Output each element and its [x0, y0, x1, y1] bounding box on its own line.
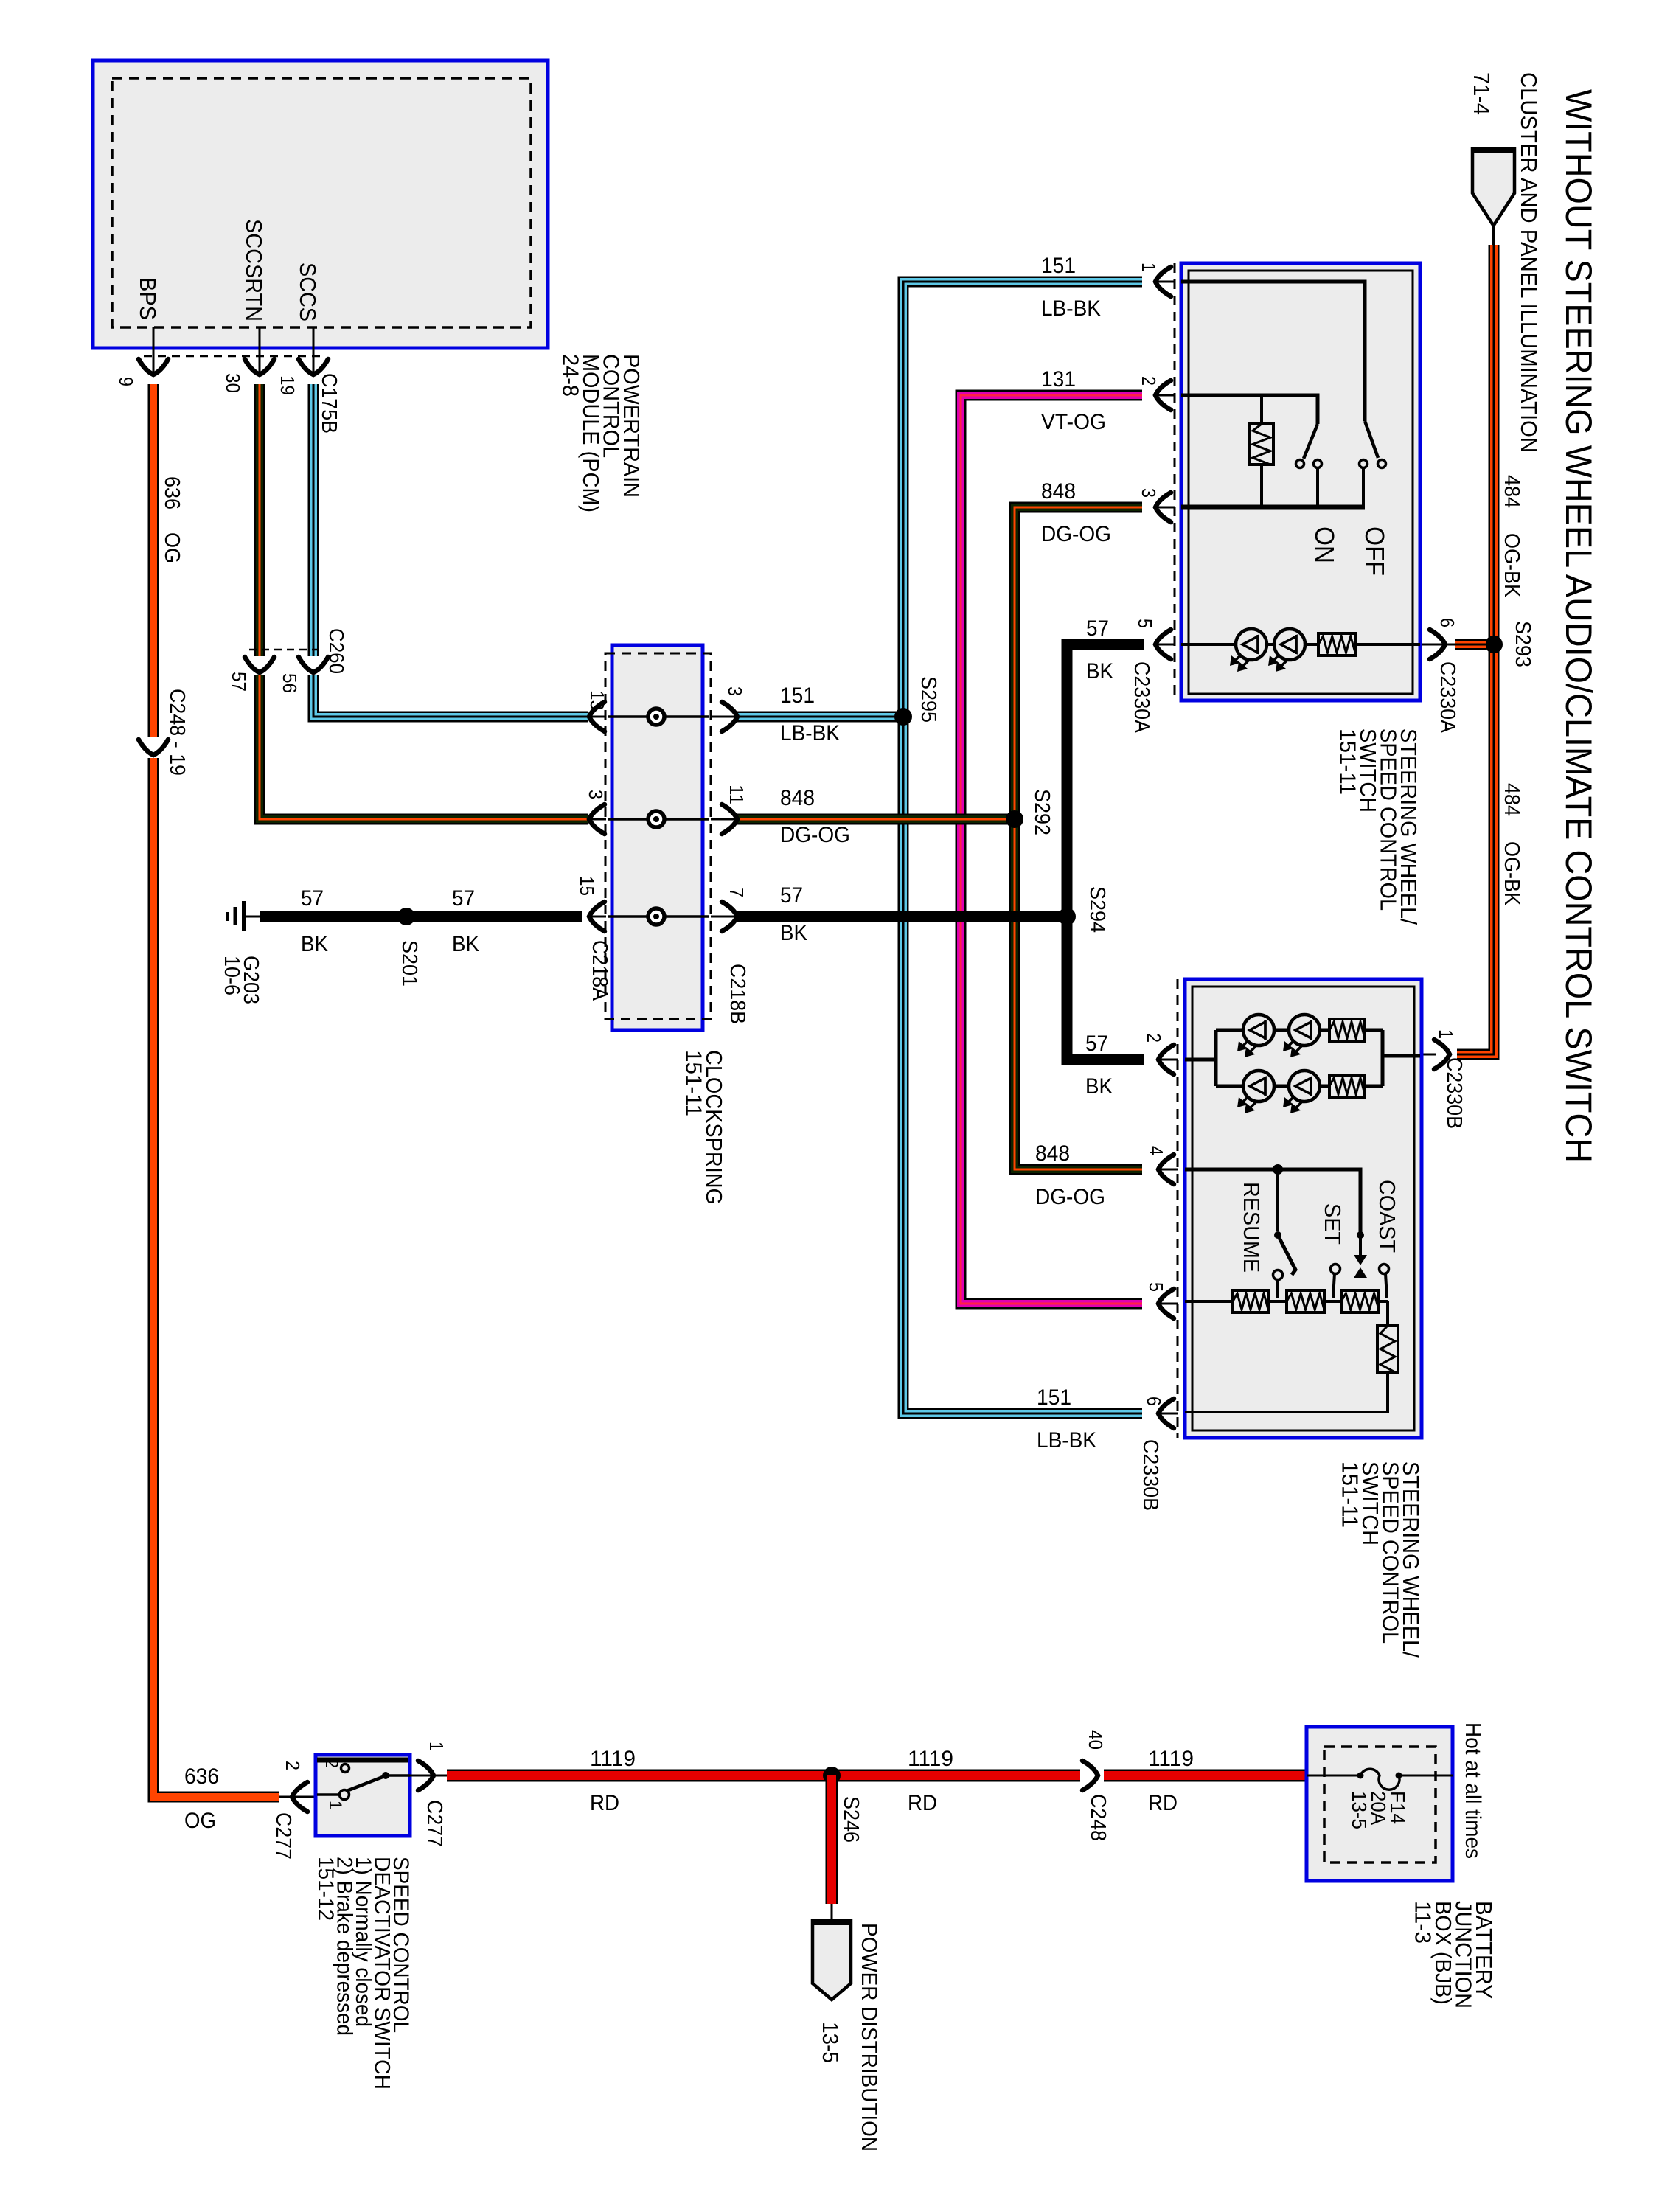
wire 484 OG-BK stub at S293 — [1455, 639, 1486, 650]
svg-text:S246: S246 — [839, 1796, 863, 1843]
switch 2 pin 5 resistor chain line — [1185, 1300, 1388, 1303]
svg-text:40: 40 — [1085, 1730, 1107, 1750]
illumination lamp (branch 1 lamp 2) — [1289, 1015, 1320, 1046]
svg-text:SCCSRTN: SCCSRTN — [241, 219, 267, 321]
svg-text:BK: BK — [452, 932, 479, 956]
splice S293 — [1485, 636, 1503, 653]
C260 pin 57 arrow — [245, 657, 274, 672]
illumination lamp 1 — [1236, 629, 1267, 660]
C218A pin 15 arrow — [589, 916, 606, 918]
svg-text:7: 7 — [726, 888, 748, 897]
clockspring box — [612, 645, 703, 1030]
wire 151 LB-BK clockspring pin 3 to S295 — [737, 712, 903, 723]
svg-text:LB-BK: LB-BK — [1037, 1428, 1096, 1453]
fuse label F14 20A 13-5 — [1348, 1791, 1409, 1829]
wire 1119 RD from C248 to battery junction box — [1104, 1770, 1307, 1782]
fuse F14 element — [1360, 1769, 1399, 1790]
switch 2 pin 6 internal line — [1185, 1372, 1388, 1412]
svg-text:S293: S293 — [1511, 621, 1534, 667]
deactivator pivot contact — [340, 1790, 349, 1800]
svg-text:3: 3 — [1138, 488, 1160, 498]
illumination lamp 2 — [1274, 629, 1305, 660]
C2330A pin 5 arrow — [1155, 644, 1175, 646]
clockspring wire 848 passage — [608, 818, 709, 821]
inline connector C248 arrow — [1082, 1761, 1098, 1790]
connector C277 pin 2 arrow — [292, 1782, 307, 1812]
svg-text:13-5: 13-5 — [818, 2022, 842, 2063]
RESUME switch pivot — [1274, 1169, 1281, 1239]
svg-text:C218B: C218B — [726, 964, 749, 1024]
C218B pin 11 arrow — [711, 818, 737, 821]
wire 484 OG-BK from cluster illumination to C2330B pin 1 — [1457, 245, 1494, 1054]
svg-text:C277: C277 — [422, 1800, 446, 1847]
C2330B pin 6 arrow — [1158, 1413, 1178, 1415]
svg-text:RD: RD — [908, 1791, 937, 1815]
svg-text:BK: BK — [780, 921, 807, 945]
svg-text:C175B: C175B — [317, 373, 341, 434]
lead from switch pin 6 to S293 — [1420, 644, 1457, 646]
illumination lamp (branch 2 lamp 1) — [1243, 1071, 1274, 1102]
svg-text:13-5: 13-5 — [1348, 1791, 1371, 1829]
power distribution off-page connector — [813, 1921, 851, 2000]
svg-text:1119: 1119 — [590, 1747, 636, 1771]
lead from C2330B pin 1 arrow to wire 484 — [1422, 1054, 1436, 1056]
svg-text:COAST: COAST — [1374, 1180, 1400, 1253]
wire 1119 RD from C277 to S246 — [447, 1770, 1080, 1782]
svg-text:848: 848 — [1035, 1141, 1070, 1166]
COAST contact lead — [1385, 1273, 1387, 1298]
svg-text:30: 30 — [222, 373, 244, 393]
svg-text:3: 3 — [585, 790, 607, 799]
junction to dropping resistor — [1386, 1301, 1389, 1326]
resistor (ON indicator) — [1260, 395, 1263, 507]
PCM box (Powertrain Control Module) — [93, 60, 548, 348]
splice S295 — [894, 708, 912, 726]
svg-text:ON: ON — [1310, 526, 1340, 563]
svg-text:C248: C248 — [1086, 1794, 1110, 1841]
OFF switch contacts — [1360, 460, 1386, 508]
wire 848 DG-OG from C260 to clockspring pin 3 — [260, 675, 588, 819]
svg-text:LB-BK: LB-BK — [780, 721, 840, 745]
clockspring wire 57 passage — [608, 915, 709, 918]
switch 2 pin 4 internal line — [1185, 1169, 1360, 1233]
switch 1 pin 2 internal line — [1181, 395, 1318, 424]
wire 131 VT-OG switch 1 pin 2 trunk — [961, 395, 1142, 1304]
wire 636 OG (lower segment to deactivator switch) — [153, 758, 279, 1797]
svg-text:S292: S292 — [1030, 789, 1054, 835]
svg-text:DG-OG: DG-OG — [1035, 1185, 1105, 1209]
illumination lamp (branch 2 lamp 2) — [1289, 1071, 1320, 1102]
svg-text:BK: BK — [1085, 1074, 1113, 1099]
svg-text:636: 636 — [184, 1764, 219, 1789]
svg-text:BK: BK — [301, 932, 328, 956]
C2330A pin 2 arrow — [1155, 394, 1175, 397]
inline connector C248-19 arrow — [139, 740, 168, 755]
svg-text:C218A: C218A — [588, 940, 611, 1001]
svg-text:151: 151 — [1037, 1385, 1071, 1410]
PCM pin stubs — [153, 327, 313, 373]
svg-text:6: 6 — [1143, 1397, 1165, 1406]
svg-text:57: 57 — [228, 672, 250, 692]
PCM pin 9 arrow — [139, 359, 168, 375]
svg-text:2: 2 — [1143, 1033, 1165, 1043]
PCM pin 30 arrow — [245, 359, 274, 375]
svg-text:151-11: 151-11 — [1338, 1461, 1363, 1528]
svg-text:CLUSTER AND PANEL ILLUMINATION: CLUSTER AND PANEL ILLUMINATION — [1516, 72, 1542, 453]
svg-text:3: 3 — [724, 686, 746, 696]
svg-text:56: 56 — [279, 673, 301, 693]
clockspring coil (57) — [648, 908, 664, 925]
svg-text:C260: C260 — [325, 628, 348, 674]
cluster connector top edge — [1472, 147, 1515, 153]
COAST momentary contact symbol — [1354, 1255, 1367, 1265]
svg-text:4: 4 — [1145, 1146, 1167, 1155]
splice S292 — [1006, 810, 1023, 828]
svg-text:484: 484 — [1500, 475, 1523, 508]
wire 57 BK ground to S201 to C218A — [260, 911, 582, 922]
wire 636 OG from PCM pin 9 (upper segment) — [148, 384, 159, 737]
switch 1 caption — [1335, 728, 1422, 925]
svg-text:C2330A: C2330A — [1130, 661, 1153, 734]
svg-text:19: 19 — [276, 375, 299, 395]
splice S201 — [397, 908, 415, 925]
svg-text:15: 15 — [576, 876, 598, 896]
connector C2330A dashed face — [1174, 263, 1176, 700]
wire 848 DG-OG from PCM pin 30 (upper) — [254, 384, 265, 656]
wire 848 DG-OG clockspring pin 11 to S292 — [737, 814, 1015, 825]
svg-text:57: 57 — [452, 886, 475, 911]
svg-text:848: 848 — [1041, 479, 1076, 504]
deactivator caption — [313, 1857, 413, 2090]
C2330B pin 4 arrow — [1158, 1169, 1178, 1171]
switch 1 pin 1 internal line — [1181, 282, 1365, 421]
switch 2 illumination feed line — [1185, 1058, 1216, 1062]
SET contact circle — [1331, 1265, 1340, 1274]
svg-text:DG-OG: DG-OG — [780, 823, 850, 847]
power distribution connector top edge — [812, 1919, 852, 1925]
svg-text:57: 57 — [1086, 616, 1109, 641]
svg-text:BPS: BPS — [135, 277, 161, 320]
svg-text:57: 57 — [780, 883, 803, 908]
wire 151 LB-BK from C260 to clockspring pin 13 — [313, 675, 588, 717]
svg-text:OG: OG — [184, 1809, 216, 1833]
lead to power distribution connector — [831, 1904, 833, 1922]
svg-text:151-11: 151-11 — [681, 1050, 707, 1116]
svg-text:S294: S294 — [1085, 886, 1109, 933]
ON switch blade — [1304, 424, 1318, 459]
wire 57 BK switch 1 pin 5 trunk — [1067, 644, 1144, 1060]
svg-text:C2330A: C2330A — [1436, 661, 1459, 734]
dropping resistor (vertical) — [1377, 1326, 1398, 1372]
illumination resistor — [1318, 633, 1355, 655]
caption G203 10-6 — [220, 956, 262, 1004]
svg-text:OFF: OFF — [1360, 526, 1390, 576]
wire 151 LB-BK from PCM pin 19 (upper) — [308, 384, 319, 656]
svg-text:BK: BK — [1086, 659, 1113, 684]
resistor (RESUME) — [1233, 1290, 1268, 1312]
connector C2330A pin 6 arrow — [1430, 630, 1445, 659]
RESUME contact lead — [1276, 1280, 1279, 1298]
C2330A pin 1 arrow — [1155, 281, 1175, 283]
svg-text:1: 1 — [325, 1801, 345, 1809]
svg-text:DG-OG: DG-OG — [1041, 522, 1111, 546]
svg-text:71-4: 71-4 — [1469, 72, 1495, 115]
COAST contact circle — [1380, 1265, 1389, 1274]
svg-text:C2330B: C2330B — [1138, 1439, 1162, 1511]
clockspring dashed connector outline — [605, 653, 711, 1019]
connector C260 dashed face — [249, 649, 322, 651]
lead from cluster connector — [1492, 226, 1495, 246]
C218A pin 3 arrow — [589, 818, 606, 821]
resistor (COAST) — [1341, 1290, 1379, 1312]
svg-text:OG-BK: OG-BK — [1500, 533, 1523, 598]
svg-text:RESUME: RESUME — [1239, 1182, 1265, 1273]
svg-text:1119: 1119 — [1148, 1747, 1194, 1771]
svg-text:636: 636 — [160, 476, 184, 509]
svg-text:10-6: 10-6 — [220, 956, 243, 995]
svg-text:6: 6 — [1436, 618, 1458, 627]
svg-text:SET: SET — [1320, 1203, 1346, 1245]
cluster illumination off-page connector — [1472, 149, 1514, 226]
svg-text:151-12: 151-12 — [313, 1857, 338, 1921]
clockspring coil (151) — [648, 709, 664, 725]
C218A pin 13 arrow — [589, 716, 606, 718]
connector C2330B dashed face — [1177, 979, 1179, 1438]
deactivator open contact (position 2) — [341, 1764, 349, 1773]
svg-text:131: 131 — [1041, 367, 1076, 392]
C260 pin 56 arrow — [299, 657, 328, 672]
svg-text:5: 5 — [1145, 1282, 1167, 1292]
svg-text:S201: S201 — [397, 940, 421, 987]
svg-text:OG: OG — [160, 532, 184, 563]
wire 151 LB-BK switch 1 pin 1 trunk — [903, 282, 1142, 1413]
svg-text:1119: 1119 — [908, 1747, 953, 1771]
battery junction box — [1307, 1727, 1453, 1881]
lead from deactivator pin 1 — [410, 1775, 447, 1777]
svg-text:1: 1 — [1435, 1029, 1457, 1039]
SET contact lead — [1333, 1273, 1335, 1298]
switch 1 pin 3 bus — [1181, 505, 1365, 510]
svg-text:SCCS: SCCS — [295, 262, 321, 321]
svg-text:LB-BK: LB-BK — [1041, 296, 1101, 321]
svg-text:RD: RD — [590, 1791, 619, 1815]
illumination resistor (branch 1) — [1329, 1019, 1365, 1041]
BJB dashed fuse compartment — [1324, 1747, 1436, 1863]
svg-text:2: 2 — [282, 1761, 304, 1770]
junction dot (RESUME branch) — [1273, 1164, 1283, 1175]
connector C277 pin 1 arrow — [418, 1761, 434, 1790]
clockspring wire 151 passage — [608, 715, 709, 718]
RESUME switch blade — [1279, 1238, 1295, 1275]
svg-text:C2330B: C2330B — [1442, 1057, 1466, 1129]
switch 1 inner border — [1189, 271, 1413, 694]
svg-text:S295: S295 — [917, 676, 940, 723]
switch 1 illumination line — [1181, 643, 1420, 646]
switch 2 caption — [1338, 1461, 1425, 1658]
wire 57 BK clockspring pin 7 to S294 — [737, 911, 1067, 922]
svg-text:11-3: 11-3 — [1411, 1901, 1436, 1944]
illumination resistor (branch 2) — [1329, 1075, 1365, 1097]
C218B pin 3 arrow — [711, 716, 737, 718]
svg-text:VT-OG: VT-OG — [1041, 410, 1106, 434]
svg-text:WITHOUT STEERING WHEEL AUDIO/C: WITHOUT STEERING WHEEL AUDIO/CLIMATE CON… — [1558, 89, 1599, 1163]
svg-text:RD: RD — [1148, 1791, 1178, 1815]
svg-text:Hot at all times: Hot at all times — [1461, 1722, 1485, 1859]
switch 2 inner border — [1192, 987, 1414, 1430]
C218B pin 7 arrow — [711, 916, 737, 918]
deactivator switch top edge — [317, 1758, 408, 1763]
svg-text:151: 151 — [1041, 254, 1076, 278]
svg-text:1: 1 — [1138, 262, 1160, 272]
steering wheel speed control switch 1 box — [1181, 263, 1420, 700]
C2330B pin 5 arrow — [1158, 1303, 1178, 1305]
svg-text:57: 57 — [1085, 1032, 1108, 1056]
clockspring caption — [681, 1050, 728, 1205]
PCM pin 19 arrow — [299, 359, 328, 375]
wire 848 DG-OG switch 1 pin 3 trunk — [1015, 507, 1142, 1169]
svg-text:1: 1 — [425, 1742, 448, 1751]
steering wheel speed control switch 2 box — [1185, 979, 1422, 1438]
svg-text:2: 2 — [321, 1759, 341, 1768]
svg-text:151: 151 — [780, 684, 815, 708]
svg-text:484: 484 — [1500, 783, 1523, 816]
deactivator switch internals — [317, 1772, 410, 1795]
resistor (SET) — [1287, 1290, 1324, 1312]
svg-text:C248 - 19: C248 - 19 — [165, 689, 189, 776]
fuse F14 leads — [1307, 1775, 1453, 1777]
splice S294 — [1058, 908, 1076, 925]
BJB caption — [1411, 1901, 1498, 2008]
C2330B pin 2 arrow — [1158, 1059, 1178, 1061]
COAST feed dot — [1357, 1231, 1364, 1239]
wire 1119 RD branch to power distribution — [826, 1775, 838, 1904]
svg-text:9: 9 — [115, 377, 137, 386]
svg-text:24-8: 24-8 — [558, 354, 584, 397]
svg-text:2: 2 — [1138, 376, 1160, 386]
ground G203 — [228, 901, 261, 931]
connector C175B dashed face — [144, 355, 322, 358]
svg-text:848: 848 — [780, 786, 815, 810]
lead from wire 636 to C277 pin 2 — [279, 1796, 316, 1798]
svg-text:OG-BK: OG-BK — [1500, 841, 1523, 906]
svg-text:11: 11 — [726, 785, 748, 804]
svg-text:151-11: 151-11 — [1335, 728, 1361, 795]
connector C2330B pin 1 arrow — [1434, 1040, 1450, 1069]
illumination lamp (branch 1 lamp 1) — [1243, 1015, 1274, 1046]
OFF switch blade — [1365, 421, 1378, 458]
svg-text:C277: C277 — [271, 1812, 295, 1860]
svg-text:POWER DISTRIBUTION: POWER DISTRIBUTION — [857, 1923, 881, 2152]
clockspring coil (848) — [648, 811, 664, 827]
speed control deactivator switch box — [316, 1755, 410, 1836]
splice S246 — [823, 1767, 841, 1784]
svg-text:57: 57 — [301, 886, 324, 911]
ON switch contacts — [1296, 460, 1322, 508]
svg-text:5: 5 — [1134, 619, 1156, 628]
RESUME contact circle — [1273, 1270, 1283, 1280]
illumination branch rails — [1216, 1030, 1420, 1086]
PCM caption POWERTRAIN CONTROL MODULE (PCM) 24-8 — [558, 354, 645, 512]
C2330A pin 3 arrow — [1155, 507, 1175, 509]
